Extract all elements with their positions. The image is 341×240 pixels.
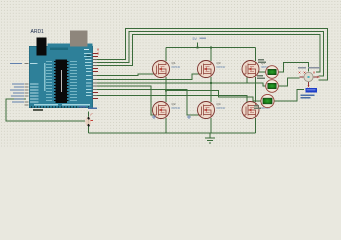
ground symbol <box>205 133 215 143</box>
LED D3 label <box>254 105 261 109</box>
LED D3 (green, active) <box>261 94 274 107</box>
motor pin right <box>313 76 318 78</box>
arduino right unconnected red pin stubs <box>93 54 99 99</box>
transistor Q2 IRF540 <box>153 102 170 119</box>
motor pin left <box>300 76 304 78</box>
wire gate Q4 <box>97 90 199 116</box>
wire gate Q3 <box>97 74 199 80</box>
arduino chip-side label columns <box>46 61 77 101</box>
motor BLDC label above <box>298 67 320 68</box>
wire LED D3 to motor bottom <box>274 90 304 102</box>
wire source column B <box>210 118 212 133</box>
motor value label <box>301 95 315 99</box>
motor body <box>304 72 313 81</box>
wire gate Q5 <box>97 74 247 83</box>
wire bottom ground rail <box>89 132 256 134</box>
button terminals <box>88 117 90 119</box>
arduino ARD1 board <box>29 46 93 108</box>
svg-text:Q2: Q2 <box>172 102 176 106</box>
background grid <box>0 0 341 148</box>
button BUT1 label <box>79 106 97 109</box>
junction dot phase C <box>254 71 256 73</box>
motor unconnected pin crosses <box>299 72 320 88</box>
arduino on-board white dash <box>84 49 89 50</box>
transistor Q4 IRF540 <box>198 102 215 119</box>
wire drain column C <box>255 48 257 62</box>
transistor Q1 IRF540 <box>153 61 170 78</box>
wire phase column A <box>165 77 167 102</box>
junction dot column B on rail <box>210 46 212 48</box>
svg-text:Q1: Q1 <box>172 61 176 65</box>
svg-text:Q3: Q3 <box>217 61 221 65</box>
wire LED D1 to motor top <box>279 63 309 73</box>
wire gate Q6 <box>97 96 247 116</box>
transistor Q6 IRF540 <box>242 102 259 119</box>
arduino inner-left white labels <box>31 63 39 103</box>
wire bus2 Arduino pin to motor (middle) <box>97 32 324 77</box>
wire phase column B <box>210 77 212 102</box>
arduino ATmega328 DIP chip <box>56 60 68 104</box>
wire phase column C <box>255 77 257 102</box>
LED D2 label <box>257 75 265 79</box>
arduino chip label vertical <box>61 70 62 92</box>
wire drain column A <box>165 48 167 62</box>
svg-text:IRF540: IRF540 <box>172 65 181 69</box>
arduino bottom reference text <box>33 109 43 111</box>
wire Arduino GND loop to button <box>6 99 85 121</box>
wire power stub <box>197 43 199 48</box>
grid cross marker 2 <box>187 115 191 119</box>
arduino left edge pin labels <box>30 63 36 103</box>
wire gate Q2 <box>97 86 154 115</box>
button body <box>85 117 91 127</box>
svg-text:ARD1: ARD1 <box>31 29 45 35</box>
wire source column A <box>165 118 167 133</box>
wire drain column B <box>210 48 212 62</box>
wire phase A to LED D3 <box>166 91 262 102</box>
LED D1 (green, active) <box>266 66 279 79</box>
arduino chip pins left <box>54 61 56 101</box>
wire phase B to LED D2 <box>211 83 266 86</box>
motor pin bottom <box>308 82 310 87</box>
arduino silkscreen text column <box>44 63 46 91</box>
wire bus1 Arduino pin to motor (outer) <box>97 29 328 81</box>
junction dot phase A <box>165 89 167 91</box>
junction dot phase B <box>210 82 212 84</box>
arduino bottom label band <box>34 104 90 105</box>
wire top VCC rail <box>166 47 256 49</box>
svg-text:IRF540: IRF540 <box>217 65 226 69</box>
arduino power jack <box>70 31 88 47</box>
junction dot power stub on rail <box>196 46 198 48</box>
svg-text:IRF540: IRF540 <box>217 106 226 110</box>
wire bus3 Arduino pin to motor (inner) <box>97 35 320 73</box>
svg-text:5V: 5V <box>193 37 198 41</box>
arduino left pin stubs <box>25 64 29 106</box>
wire source column C <box>255 118 257 133</box>
arduino chip pins right <box>67 61 69 101</box>
wire button vertical <box>88 112 90 134</box>
arduino right pin stubs (connected) <box>93 60 98 96</box>
transistor Q3 IRF540 <box>198 61 215 78</box>
wire LED D2 to motor left <box>278 78 300 86</box>
arduino USB connector <box>37 38 47 56</box>
LED D2 (green, active) <box>266 80 279 93</box>
arduino bottom pin tick row <box>31 106 89 108</box>
LED D1 label <box>258 59 266 63</box>
arduino outside-left blue pin labels <box>10 63 24 103</box>
svg-text:IRF540: IRF540 <box>172 106 181 110</box>
arduino header strip top <box>50 48 68 51</box>
transistor Q5 IRF540 <box>242 61 259 78</box>
wire phase C to LED D1 <box>256 71 267 73</box>
button actuator <box>90 113 93 121</box>
grid cross marker 1 <box>152 115 156 119</box>
motor RPM display <box>306 88 318 93</box>
svg-text:Q4: Q4 <box>217 102 221 106</box>
arduino right edge pin labels <box>84 53 92 96</box>
wire gate Q1 <box>97 74 154 76</box>
